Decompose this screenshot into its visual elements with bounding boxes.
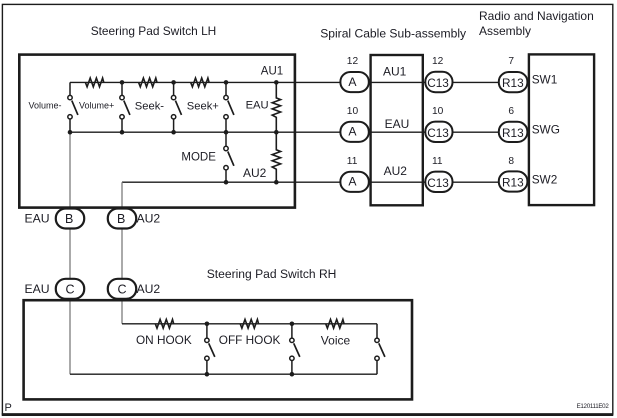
svg-text:EAU: EAU: [246, 99, 269, 111]
wire RH top (AU2 net): [122, 323, 377, 325]
svg-text:AU1: AU1: [261, 66, 283, 78]
wire EAU (row 2 bus): [70, 131, 500, 133]
connector R13 pin 8 (SW2): [499, 156, 528, 192]
svg-text:SWG: SWG: [532, 122, 560, 136]
connector B (AU2): [108, 209, 161, 229]
switch MODE: [224, 132, 234, 182]
svg-text:OFF HOOK: OFF HOOK: [219, 333, 281, 347]
box Steering Pad Switch LH: [19, 55, 295, 208]
connector B (EAU): [25, 209, 85, 229]
svg-text:EAU: EAU: [25, 212, 50, 226]
svg-text:AU2: AU2: [384, 164, 408, 178]
svg-text:AU2: AU2: [243, 166, 267, 180]
switch Volume-: [68, 82, 78, 132]
svg-text:11: 11: [432, 156, 443, 167]
wire AU1 (row 1): [70, 81, 500, 83]
svg-text:EAU: EAU: [385, 117, 410, 131]
gray wire EAU drop (LH bus to RH box): [69, 132, 71, 374]
box Spiral Cable Sub-assembly: [371, 55, 423, 205]
svg-text:Seek+: Seek+: [187, 100, 219, 112]
svg-text:C: C: [118, 283, 127, 297]
resistor (Volume+ / Seek-): [139, 78, 157, 87]
svg-text:Voice: Voice: [321, 333, 351, 347]
svg-text:SW2: SW2: [532, 172, 558, 186]
svg-text:12: 12: [432, 56, 444, 67]
connector A pin 12 (AU1): [340, 56, 368, 92]
svg-text:Steering Pad Switch LH: Steering Pad Switch LH: [91, 24, 217, 38]
resistor (RH, left of ON HOOK): [155, 319, 173, 328]
svg-text:A: A: [348, 175, 357, 189]
svg-text:C13: C13: [427, 76, 449, 90]
resistor (RH, left of Voice): [326, 319, 344, 328]
resistor (vertical, row2-row3 to AU2): [272, 132, 280, 182]
svg-text:Volume+: Volume+: [79, 101, 114, 111]
connector A pin 10 (EAU): [340, 106, 368, 142]
svg-text:12: 12: [347, 56, 359, 67]
svg-text:ON HOOK: ON HOOK: [136, 333, 192, 347]
connector R13 pin 7 (SW1): [499, 56, 528, 92]
svg-text:AU2: AU2: [137, 282, 161, 296]
junction dots row 1: [120, 80, 279, 85]
switch Voice: [375, 324, 385, 374]
box Radio and Navigation Assembly: [529, 54, 594, 205]
connector C (AU2): [108, 279, 161, 299]
connector C13 pin 11 (AU2): [425, 156, 452, 192]
svg-text:B: B: [117, 212, 125, 226]
connector C13 pin 12 (AU1): [425, 56, 452, 92]
svg-text:C13: C13: [427, 176, 449, 190]
svg-text:Seek-: Seek-: [135, 100, 164, 112]
svg-text:10: 10: [347, 106, 359, 117]
svg-text:Assembly: Assembly: [479, 24, 531, 38]
svg-text:AU2: AU2: [137, 212, 161, 226]
connector C13 pin 10 (EAU): [425, 106, 452, 142]
connector A pin 11 (AU2): [340, 156, 368, 192]
svg-text:C: C: [66, 283, 75, 297]
resistor (Volume- / Volume+): [85, 78, 103, 87]
wire AU2 (row 3): [122, 181, 500, 183]
switch OFF HOOK: [290, 324, 300, 374]
svg-text:AU1: AU1: [383, 65, 407, 79]
svg-text:R13: R13: [502, 126, 524, 140]
wire RH bottom bus (EAU net): [70, 373, 377, 375]
connector C (EAU): [25, 279, 85, 299]
svg-text:8: 8: [508, 156, 514, 167]
switch Seek-: [171, 82, 181, 132]
gray wire AU2 drop (LH AU2 wire to RH box): [121, 182, 123, 324]
svg-text:P: P: [5, 402, 12, 414]
svg-text:Radio and Navigation: Radio and Navigation: [479, 9, 594, 23]
resistor (Seek- / Seek+): [191, 78, 209, 87]
switch ON HOOK: [205, 324, 215, 374]
svg-text:7: 7: [508, 56, 514, 67]
svg-text:C13: C13: [427, 126, 449, 140]
junction dots row 3: [224, 180, 279, 185]
svg-text:11: 11: [347, 156, 358, 167]
svg-text:Volume-: Volume-: [29, 101, 62, 111]
svg-text:10: 10: [432, 106, 444, 117]
switch Volume+: [120, 82, 130, 132]
box Steering Pad Switch RH: [24, 300, 412, 399]
svg-text:E120111E02: E120111E02: [577, 403, 610, 410]
junction dots RH: [205, 322, 295, 377]
resistor (RH, left of OFF HOOK): [240, 319, 258, 328]
connector R13 pin 6 (SWG): [499, 106, 528, 142]
svg-text:R13: R13: [502, 176, 524, 190]
switch Seek+: [224, 82, 234, 132]
svg-text:MODE: MODE: [181, 152, 216, 164]
svg-text:EAU: EAU: [25, 282, 50, 296]
resistor EAU (vertical, row1-row2): [272, 82, 280, 132]
junction dots row 2: [68, 130, 279, 135]
svg-text:6: 6: [508, 106, 514, 117]
svg-text:A: A: [348, 125, 357, 139]
svg-text:B: B: [65, 212, 73, 226]
svg-text:SW1: SW1: [532, 73, 558, 87]
svg-text:R13: R13: [502, 76, 524, 90]
svg-text:A: A: [348, 75, 357, 89]
svg-text:Spiral Cable Sub-assembly: Spiral Cable Sub-assembly: [320, 27, 467, 41]
svg-text:Steering Pad Switch RH: Steering Pad Switch RH: [207, 267, 337, 281]
